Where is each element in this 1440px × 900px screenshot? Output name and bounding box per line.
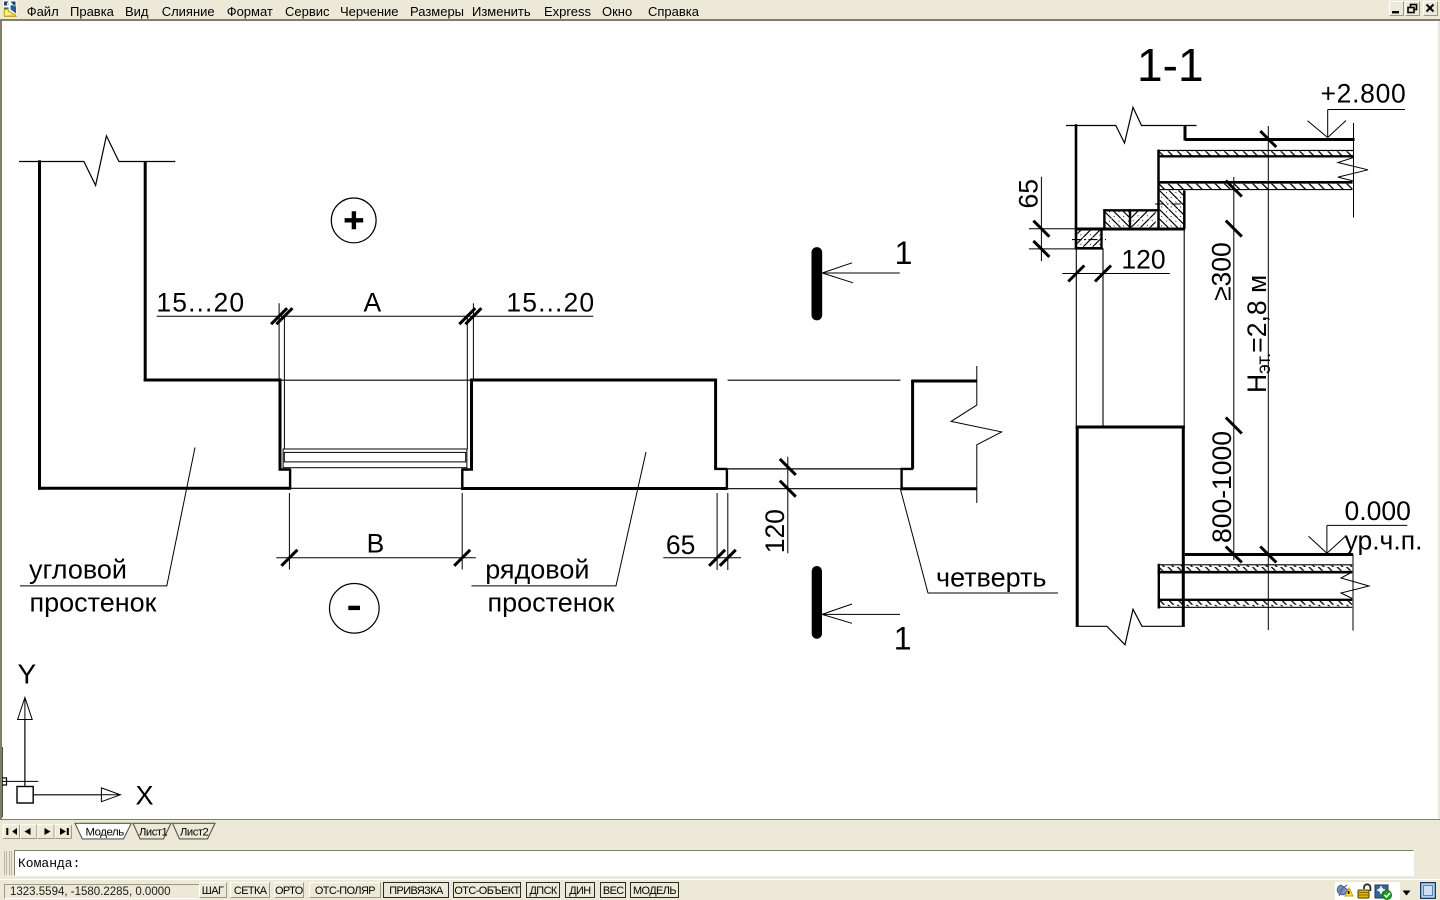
svg-text:65: 65	[1014, 179, 1044, 208]
svg-text:1: 1	[895, 235, 913, 271]
inner face line across W1 opening	[281, 379, 470, 381]
svg-text:≥300: ≥300	[1207, 242, 1237, 301]
svg-text:120: 120	[1121, 245, 1165, 275]
section: window outer face line (below quarter)	[1075, 248, 1077, 425]
UCS X axis arm	[33, 794, 101, 796]
section: quarter block right edge	[1100, 229, 1102, 248]
leader + underline for четверть	[901, 490, 1059, 594]
crosshair cursor horizontal	[0, 780, 38, 782]
window sill inner rectangle	[284, 452, 465, 462]
dimension line 120 vertical (plan)	[787, 457, 789, 554]
svg-text:X: X	[136, 781, 154, 811]
svg-text:0.000: 0.000	[1345, 496, 1411, 526]
underline + leader for угловой	[20, 448, 195, 586]
section: lower slab strip1 bottom thick line	[1158, 571, 1353, 574]
svg-text:Лист1: Лист1	[139, 826, 168, 838]
svg-text:Модель: Модель	[86, 827, 125, 839]
section: wall inner face above slab	[1184, 126, 1187, 141]
dim ticks at A line (double, right)	[459, 308, 481, 324]
plus node circle	[331, 198, 376, 243]
section: ticks on dim line x=1233.8	[1226, 181, 1242, 563]
dim ticks at A line (double, left)	[271, 308, 292, 324]
section: sill wall bottom edge with break zigzag	[1076, 609, 1185, 645]
dim ticks B	[281, 550, 470, 566]
dim ticks 65 (double)	[709, 550, 736, 566]
svg-text:15...20: 15...20	[506, 288, 595, 318]
section: lintel left edge	[1157, 150, 1160, 229]
section: dim 65 ticks	[1033, 221, 1049, 257]
UCS origin box	[17, 787, 33, 804]
svg-text:15...20: 15...20	[156, 288, 245, 318]
svg-text:рядовой: рядовой	[485, 555, 589, 585]
section mark bar 1 (lower)	[812, 566, 822, 639]
section: lower slab strip1 top line	[1158, 564, 1353, 566]
UCS X arrowhead	[101, 788, 120, 802]
section: ticks on dim line x=1268.3	[1260, 131, 1276, 563]
svg-text:+2.800: +2.800	[1321, 79, 1407, 109]
dimension line A / 15...20	[157, 315, 594, 317]
crosshair cursor vertical	[1, 747, 3, 817]
dimension line B	[276, 557, 476, 559]
command window	[0, 841, 1440, 879]
wall outer face line with break (plan top-left)	[19, 136, 175, 186]
section: lower slab strip1 hatch	[1158, 565, 1353, 570]
dimension B extension lines	[289, 493, 462, 570]
drawing canvas	[0, 21, 2, 819]
section: upper slab right edge line	[1353, 123, 1355, 218]
minus sign	[348, 606, 360, 610]
section: lower slab right edge line	[1352, 555, 1354, 631]
wall inner face right pier	[911, 380, 976, 383]
svg-text:Нэт.=2,8 м: Нэт.=2,8 м	[1242, 275, 1275, 393]
wall outer face thick (middle pier)	[461, 487, 728, 490]
menu bar	[0, 0, 1440, 19]
section: dim 120 ticks	[1068, 266, 1111, 282]
svg-text:Y: Y	[18, 659, 37, 690]
section: upper slab strip1 top line	[1158, 149, 1353, 151]
section: small lintels vertical edges	[1104, 209, 1130, 228]
section: sill wall top edge	[1076, 426, 1185, 429]
underline + leader for рядовой	[472, 452, 647, 586]
section: sill wall left edge	[1076, 426, 1079, 627]
section: wall outer face	[1075, 124, 1078, 248]
section: quarter block bottom edge	[1075, 247, 1103, 250]
svg-text:1: 1	[894, 621, 912, 657]
middle pier right jamb (window W2 left)	[714, 379, 717, 469]
wall inner face left of window W1	[144, 379, 282, 382]
quarter face line across W2 opening	[727, 468, 901, 470]
layout tab bar	[0, 819, 1440, 841]
svg-text:120: 120	[760, 509, 790, 553]
section: slab break zigzag (lower right)	[1341, 572, 1369, 599]
section: small lintel block left (hatched)	[1106, 211, 1130, 227]
minus node circle	[330, 584, 380, 634]
outer face line across W1 opening	[291, 487, 462, 489]
window W1 right jamb	[470, 379, 473, 470]
dimension 65 extension lines (plan)	[717, 493, 728, 570]
svg-text:65: 65	[666, 530, 695, 560]
section: upper slab strip1 hatch	[1158, 151, 1353, 156]
svg-text:1-1: 1-1	[1137, 39, 1203, 91]
window sill outer rectangle	[283, 449, 467, 468]
window W1 left jamb	[279, 379, 282, 470]
section: outer quarter hatched block	[1077, 231, 1100, 247]
section: big lintel hatched block	[1160, 190, 1184, 227]
svg-text:ур.ч.п.: ур.ч.п.	[1345, 526, 1423, 556]
wall break line with zigzag (plan right)	[951, 366, 1002, 503]
window W2 right quarter step	[900, 468, 913, 489]
section: window frame line	[1102, 248, 1104, 425]
section: dim line >=300 / 800-1000	[1233, 177, 1235, 560]
section: lower slab strip2 top thick line	[1158, 599, 1353, 601]
svg-text:В: В	[367, 529, 385, 559]
inner face line across W2 opening	[728, 379, 901, 381]
corner pier inner vertical face	[144, 162, 147, 382]
wall inner face of middle pier	[470, 379, 717, 382]
svg-text:Лист2: Лист2	[180, 826, 209, 838]
svg-text:800-1000: 800-1000	[1207, 431, 1237, 543]
window W1 frame outer extension lines	[279, 303, 473, 380]
svg-text:А: А	[364, 288, 382, 318]
section: big lintel right edge	[1183, 190, 1186, 229]
section: dim line 120	[1062, 273, 1170, 275]
section: upper floor top line	[1185, 138, 1355, 141]
window W1 right quarter step	[462, 469, 474, 489]
section: slab break zigzag (upper right)	[1338, 158, 1368, 182]
section: upper slab strip2 top thick line	[1158, 181, 1353, 184]
level mark 0.000 arrow	[1309, 536, 1346, 553]
section: dim 65 extension lines	[1029, 229, 1075, 249]
section: lower slab strip2 bottom line	[1158, 606, 1353, 608]
section: quarter axis dash-dot	[1072, 239, 1106, 241]
section: upper wall top line with break	[1066, 107, 1197, 143]
status bar	[0, 879, 1440, 900]
UCS Y arrowhead	[18, 698, 33, 720]
wall outer face thick (corner pier)	[38, 487, 291, 490]
section: dim line H floor-to-floor	[1267, 126, 1269, 630]
section: upper slab strip2 bottom line	[1158, 189, 1353, 191]
section: dim 65 vertical line	[1040, 177, 1042, 262]
section: lower slab strip2 hatch	[1158, 601, 1353, 606]
level mark 0.000 line	[1327, 525, 1407, 553]
wall outer face thick (right pier)	[900, 487, 976, 490]
svg-text:четверть: четверть	[936, 563, 1046, 593]
section: window head line	[1075, 228, 1185, 231]
section: sill wall right edge	[1182, 426, 1185, 627]
dim ticks 120 (plan)	[780, 459, 796, 497]
svg-text:простенок: простенок	[488, 588, 615, 618]
outer face line across W2 opening	[728, 488, 901, 490]
section mark bar 1 (upper)	[812, 247, 823, 320]
crosshair pickbox	[0, 778, 7, 785]
section: upper slab strip1 bottom thick line	[1158, 155, 1353, 157]
section arrow 1 (upper)	[822, 263, 900, 283]
section: lower slab left edge	[1158, 564, 1160, 609]
section: upper slab strip2 hatch	[1158, 184, 1353, 189]
section: small lintels top edge	[1103, 209, 1158, 211]
dimension line 65 (plan)	[663, 557, 741, 559]
section arrow 1 (lower)	[822, 604, 900, 623]
section: wall inner face line (window)	[1183, 229, 1185, 426]
window W1 left quarter step	[279, 469, 291, 489]
svg-text:простенок: простенок	[30, 587, 157, 617]
section: lintel axis dash-dot	[1155, 203, 1188, 205]
section: small lintel block right (hatched)	[1131, 211, 1156, 227]
level mark +2.800 arrow	[1308, 121, 1347, 138]
plus sign	[345, 211, 364, 229]
svg-text:угловой: угловой	[29, 555, 127, 585]
section: lower floor top line	[1185, 553, 1353, 556]
window W2 right jamb	[911, 380, 914, 469]
window W1 frame inner lines	[284, 316, 467, 449]
level mark +2.800 line	[1328, 110, 1405, 138]
UCS Y axis stem	[24, 720, 26, 787]
window W2 left quarter step	[714, 468, 727, 489]
corner pier left edge	[38, 160, 41, 490]
